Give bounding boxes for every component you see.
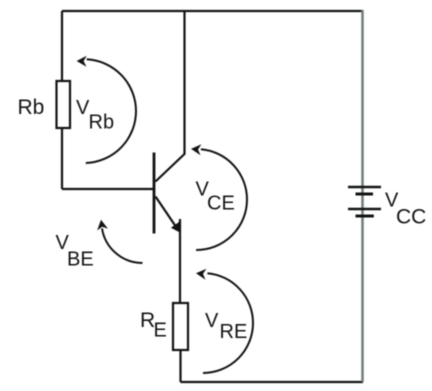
voltage arrow VRE arc — [196, 269, 253, 373]
transistor Q1 collector lead — [156, 154, 186, 182]
svg-text:Rb: Rb — [89, 112, 115, 134]
wire collector vertical from top rail — [183, 11, 185, 154]
transistor Q1 emitter lead with arrow — [156, 197, 181, 234]
svg-text:CC: CC — [396, 206, 426, 229]
battery V1 plate long lower — [348, 208, 381, 210]
battery V1 plate long top — [348, 186, 381, 188]
wire left branch vertical (base branch) — [61, 11, 63, 189]
svg-text:E: E — [154, 320, 167, 342]
label VRE — [205, 310, 247, 343]
wire right branch vertical (Vcc branch) — [361, 10, 364, 382]
voltage arrow VCE arc — [191, 144, 247, 250]
wire base horizontal segment — [62, 188, 153, 190]
svg-text:BE: BE — [67, 249, 94, 271]
label VRb — [76, 97, 114, 134]
label VCC — [385, 190, 426, 229]
svg-text:Rb: Rb — [18, 96, 45, 119]
transistor Q1 base bar — [153, 153, 156, 234]
label VCE — [196, 179, 235, 215]
wire bottom rail — [181, 381, 364, 383]
resistor Rb — [57, 81, 71, 128]
voltage arrow VBE arc — [97, 220, 142, 263]
wire below RE to bottom rail — [179, 350, 181, 382]
svg-text:CE: CE — [207, 193, 235, 215]
resistor RE — [173, 303, 188, 350]
battery V1 plate short upper — [356, 193, 374, 196]
wire emitter vertical to RE — [179, 219, 181, 303]
svg-text:RE: RE — [220, 321, 248, 343]
voltage arrow VRb arc — [77, 56, 136, 163]
svg-text:V: V — [205, 310, 219, 332]
battery V1 plate short bottom — [356, 215, 374, 218]
label VBE — [56, 232, 94, 271]
wire top rail from left branch to Vcc branch — [62, 10, 363, 12]
